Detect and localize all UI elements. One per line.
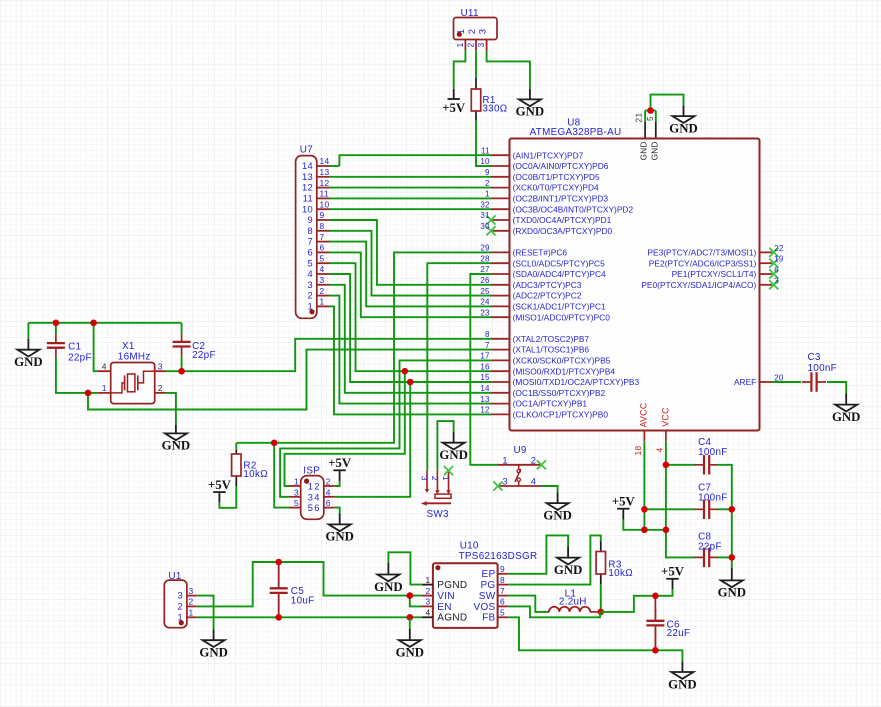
- svg-text:2: 2: [189, 597, 194, 607]
- svg-text:6: 6: [320, 243, 325, 253]
- svg-text:3: 3: [308, 280, 313, 290]
- svg-text:8: 8: [320, 221, 325, 231]
- svg-text:4: 4: [102, 361, 107, 371]
- svg-text:14: 14: [302, 161, 313, 171]
- svg-text:2.2uH: 2.2uH: [559, 597, 587, 608]
- svg-text:GND: GND: [640, 141, 649, 160]
- svg-text:20: 20: [774, 374, 784, 383]
- svg-text:7: 7: [500, 586, 505, 596]
- svg-text:AVCC: AVCC: [638, 402, 648, 427]
- svg-text:16MHz: 16MHz: [118, 352, 151, 363]
- svg-text:5: 5: [308, 503, 313, 513]
- svg-text:EN: EN: [437, 602, 452, 613]
- svg-text:3: 3: [320, 275, 325, 285]
- svg-text:GND: GND: [543, 508, 571, 522]
- svg-text:12: 12: [302, 183, 313, 193]
- svg-text:18: 18: [633, 446, 643, 456]
- svg-text:26: 26: [480, 276, 490, 285]
- svg-text:1: 1: [308, 482, 313, 492]
- svg-text:100nF: 100nF: [808, 363, 838, 374]
- svg-text:GND: GND: [669, 121, 697, 135]
- svg-text:(XCK0/T0/PTCXY)PD4: (XCK0/T0/PTCXY)PD4: [513, 183, 599, 193]
- svg-text:EP: EP: [482, 569, 496, 580]
- svg-text:10kΩ: 10kΩ: [608, 568, 633, 579]
- svg-text:2: 2: [430, 476, 440, 481]
- svg-text:1: 1: [102, 383, 107, 393]
- svg-text:GND: GND: [162, 439, 190, 453]
- svg-text:6: 6: [326, 498, 331, 508]
- svg-text:GND: GND: [374, 580, 402, 594]
- svg-text:9: 9: [485, 168, 490, 177]
- svg-text:16: 16: [480, 362, 490, 371]
- svg-text:GND: GND: [325, 530, 353, 544]
- svg-text:GND: GND: [199, 646, 227, 660]
- svg-text:2: 2: [158, 383, 163, 393]
- svg-text:(OC1B/SS0/PTCXY)PB2: (OC1B/SS0/PTCXY)PB2: [513, 388, 606, 398]
- svg-text:2: 2: [466, 42, 476, 47]
- svg-text:6: 6: [314, 503, 319, 513]
- svg-text:PE1(PTCXY/SCL1/T4): PE1(PTCXY/SCL1/T4): [672, 269, 757, 279]
- svg-text:1: 1: [426, 575, 431, 585]
- svg-text:+5V: +5V: [328, 456, 352, 470]
- svg-text:2: 2: [326, 477, 331, 487]
- svg-text:GND: GND: [668, 677, 696, 691]
- svg-text:PE3(PTCY/ADC7/T3/MOSI1): PE3(PTCY/ADC7/T3/MOSI1): [647, 248, 756, 258]
- svg-text:23: 23: [480, 308, 490, 317]
- svg-text:3: 3: [189, 586, 194, 596]
- svg-text:C3: C3: [808, 352, 821, 363]
- svg-text:6: 6: [308, 248, 313, 258]
- svg-text:(OC1A/PTCXY)PB1: (OC1A/PTCXY)PB1: [513, 399, 588, 409]
- svg-text:11: 11: [481, 146, 490, 155]
- svg-text:10: 10: [480, 157, 490, 166]
- svg-text:(SDA0/ADC4/PTCY)PC4: (SDA0/ADC4/PTCY)PC4: [513, 269, 606, 279]
- svg-text:22pF: 22pF: [698, 542, 722, 553]
- svg-text:+5V: +5V: [612, 495, 636, 509]
- svg-text:11: 11: [320, 189, 329, 199]
- svg-text:8: 8: [308, 226, 313, 236]
- svg-text:14: 14: [480, 384, 490, 393]
- svg-text:3: 3: [419, 476, 429, 481]
- svg-text:GND: GND: [396, 645, 424, 659]
- svg-text:PE0(PTCXY/SDA1/ICP4/ACO): PE0(PTCXY/SDA1/ICP4/ACO): [641, 280, 756, 290]
- svg-text:2: 2: [308, 291, 313, 301]
- svg-text:(MISO1/ADC0/PTCY)PC0: (MISO1/ADC0/PTCY)PC0: [513, 312, 611, 322]
- svg-text:SW3: SW3: [427, 509, 450, 520]
- svg-text:(OC2B/INT1/PTCXY)PD3: (OC2B/INT1/PTCXY)PD3: [513, 194, 609, 204]
- svg-text:30: 30: [480, 222, 490, 231]
- svg-text:U11: U11: [461, 8, 479, 19]
- svg-text:4: 4: [314, 492, 319, 502]
- svg-text:6: 6: [774, 266, 779, 275]
- svg-text:GND: GND: [718, 586, 746, 600]
- svg-text:(SCK1/ADC1/PTCY)PC1: (SCK1/ADC1/PTCY)PC1: [513, 302, 606, 312]
- svg-text:12: 12: [320, 178, 330, 188]
- svg-text:(ADC3/PTCY)PC3: (ADC3/PTCY)PC3: [513, 280, 582, 290]
- svg-text:2: 2: [178, 602, 183, 612]
- svg-text:11: 11: [303, 194, 313, 204]
- svg-text:4: 4: [654, 447, 664, 452]
- svg-text:25: 25: [480, 287, 490, 296]
- svg-text:3: 3: [476, 42, 486, 47]
- svg-text:4: 4: [320, 264, 325, 274]
- svg-text:12: 12: [480, 406, 490, 415]
- svg-text:U7: U7: [300, 145, 313, 156]
- svg-text:(RESET#)PC6: (RESET#)PC6: [513, 248, 568, 258]
- svg-text:GND: GND: [516, 105, 544, 119]
- svg-text:6: 6: [500, 597, 505, 607]
- svg-text:10kΩ: 10kΩ: [243, 469, 268, 480]
- svg-text:+5V: +5V: [661, 565, 685, 579]
- svg-text:(MISO0/RXD1/PTCXY)PB4: (MISO0/RXD1/PTCXY)PB4: [513, 366, 616, 376]
- svg-text:13: 13: [480, 395, 490, 404]
- svg-text:100nF: 100nF: [698, 447, 728, 458]
- svg-text:PE2(PTCY/ADC6/ICP3/SS1): PE2(PTCY/ADC6/ICP3/SS1): [649, 258, 757, 268]
- svg-text:22pF: 22pF: [192, 350, 216, 361]
- svg-text:5: 5: [308, 258, 313, 268]
- svg-text:5: 5: [294, 498, 299, 508]
- svg-text:ATMEGA328PB-AU: ATMEGA328PB-AU: [530, 127, 622, 138]
- svg-text:4: 4: [326, 487, 331, 497]
- svg-text:330Ω: 330Ω: [482, 103, 507, 114]
- svg-text:22uF: 22uF: [667, 628, 691, 639]
- svg-text:(XCK0/SCK0/PTCXY)PB5: (XCK0/SCK0/PTCXY)PB5: [513, 356, 611, 366]
- svg-text:2: 2: [531, 455, 536, 465]
- svg-text:SW: SW: [479, 591, 496, 602]
- svg-text:VOS: VOS: [473, 602, 495, 613]
- svg-text:2: 2: [314, 482, 319, 492]
- svg-text:3: 3: [294, 487, 299, 497]
- svg-text:1: 1: [485, 190, 490, 199]
- svg-text:PGND: PGND: [437, 580, 467, 591]
- svg-text:13: 13: [302, 172, 313, 182]
- svg-text:7: 7: [320, 232, 325, 242]
- svg-text:3: 3: [178, 591, 183, 601]
- svg-text:32: 32: [480, 200, 490, 209]
- svg-text:GND: GND: [651, 141, 660, 160]
- svg-text:GND: GND: [14, 355, 42, 369]
- svg-text:(XTAL2/TOSC2)PB7: (XTAL2/TOSC2)PB7: [513, 334, 590, 344]
- svg-text:(MOSI0/TXD1/OC2A/PTCXY)PB3: (MOSI0/TXD1/OC2A/PTCXY)PB3: [513, 377, 640, 387]
- svg-text:31: 31: [480, 211, 490, 220]
- svg-text:(SCL0/ADC5/PTCY)PC5: (SCL0/ADC5/PTCY)PC5: [513, 258, 605, 268]
- svg-text:PG: PG: [480, 580, 495, 591]
- svg-text:4: 4: [308, 269, 313, 279]
- svg-text:8: 8: [500, 575, 505, 585]
- svg-text:28: 28: [480, 254, 490, 263]
- svg-text:(OC0B/T1/PTCXY)PD5: (OC0B/T1/PTCXY)PD5: [513, 172, 600, 182]
- svg-text:3: 3: [158, 361, 163, 371]
- svg-text:22pF: 22pF: [68, 352, 92, 363]
- svg-text:GND: GND: [554, 563, 582, 577]
- svg-text:9: 9: [308, 215, 313, 225]
- svg-text:AGND: AGND: [437, 613, 467, 624]
- svg-text:1: 1: [294, 477, 299, 487]
- svg-text:7: 7: [308, 237, 313, 247]
- svg-text:3: 3: [426, 597, 431, 607]
- svg-text:24: 24: [480, 298, 490, 307]
- svg-text:9: 9: [500, 564, 505, 574]
- svg-text:(AIN1/PTCXY)PD7: (AIN1/PTCXY)PD7: [513, 150, 584, 160]
- svg-text:27: 27: [480, 265, 490, 274]
- svg-text:(OC0A/AIN0/PTCXY)PD6: (OC0A/AIN0/PTCXY)PD6: [513, 161, 609, 171]
- svg-text:VIN: VIN: [437, 591, 455, 602]
- svg-text:(XTAL1/TOSC1)PB6: (XTAL1/TOSC1)PB6: [513, 345, 590, 355]
- svg-text:10: 10: [320, 199, 330, 209]
- svg-text:U9: U9: [514, 445, 527, 456]
- svg-text:19: 19: [774, 255, 784, 264]
- svg-text:AREF: AREF: [734, 377, 756, 387]
- svg-text:(RXD0/OC3A/PTCXY)PD0: (RXD0/OC3A/PTCXY)PD0: [513, 226, 613, 236]
- svg-text:29: 29: [480, 244, 490, 253]
- svg-text:1: 1: [189, 608, 194, 618]
- svg-text:GND: GND: [439, 448, 467, 462]
- svg-text:5: 5: [320, 253, 325, 263]
- svg-text:+5V: +5V: [208, 478, 232, 492]
- svg-text:22: 22: [774, 244, 784, 253]
- svg-text:3: 3: [502, 477, 507, 487]
- svg-text:(ADC2/PTCY)PC2: (ADC2/PTCY)PC2: [513, 291, 582, 301]
- svg-text:9: 9: [320, 210, 325, 220]
- svg-text:GND: GND: [832, 410, 860, 424]
- svg-text:(CLKO/ICP1/PTCXY)PB0: (CLKO/ICP1/PTCXY)PB0: [513, 410, 609, 420]
- svg-text:3: 3: [477, 29, 487, 34]
- svg-text:C1: C1: [68, 342, 81, 353]
- svg-text:3: 3: [308, 492, 313, 502]
- svg-text:TPS62163DSGR: TPS62163DSGR: [459, 551, 538, 562]
- svg-text:17: 17: [480, 352, 490, 361]
- svg-text:VCC: VCC: [661, 407, 671, 427]
- svg-text:4: 4: [531, 477, 536, 487]
- svg-text:10uF: 10uF: [291, 596, 315, 607]
- svg-text:ISP: ISP: [303, 466, 320, 477]
- svg-text:7: 7: [485, 341, 490, 350]
- svg-text:15: 15: [480, 373, 490, 382]
- svg-text:(OC3B/OC4B/INT0/PTCXY)PD2: (OC3B/OC4B/INT0/PTCXY)PD2: [513, 204, 634, 214]
- svg-text:14: 14: [320, 156, 330, 166]
- svg-text:8: 8: [485, 330, 490, 339]
- svg-text:U1: U1: [168, 571, 181, 582]
- svg-text:FB: FB: [482, 613, 495, 624]
- svg-text:2: 2: [426, 586, 431, 596]
- svg-text:+5V: +5V: [442, 101, 466, 115]
- svg-text:100nF: 100nF: [698, 493, 728, 504]
- svg-text:5: 5: [645, 116, 655, 121]
- svg-text:1: 1: [320, 297, 325, 307]
- svg-text:2: 2: [485, 179, 490, 188]
- svg-text:2: 2: [467, 29, 477, 34]
- svg-text:5: 5: [500, 608, 505, 618]
- svg-text:2: 2: [320, 286, 325, 296]
- svg-text:4: 4: [426, 608, 431, 618]
- svg-text:1: 1: [441, 476, 451, 481]
- svg-text:1: 1: [502, 455, 507, 465]
- svg-text:10: 10: [302, 204, 313, 214]
- svg-text:(TXD0/OC4A/PTCXY)PD1: (TXD0/OC4A/PTCXY)PD1: [513, 215, 612, 225]
- svg-text:1: 1: [455, 42, 465, 47]
- svg-text:3: 3: [774, 276, 779, 285]
- svg-text:21: 21: [634, 113, 644, 123]
- svg-text:13: 13: [320, 167, 330, 177]
